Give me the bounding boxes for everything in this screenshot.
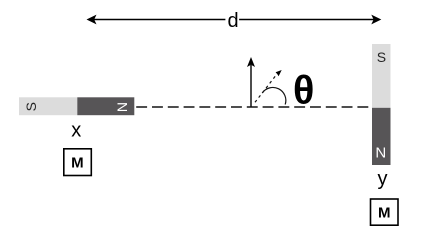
svg-text:M: M [71,154,84,171]
svg-text:y: y [378,168,388,190]
svg-text:x: x [71,119,81,141]
svg-text:N: N [375,144,386,161]
svg-text:θ: θ [293,68,314,112]
svg-text:S: S [23,102,39,111]
svg-text:d: d [227,10,238,32]
svg-text:N: N [114,102,130,112]
svg-text:S: S [377,49,386,65]
svg-text:M: M [378,205,391,222]
